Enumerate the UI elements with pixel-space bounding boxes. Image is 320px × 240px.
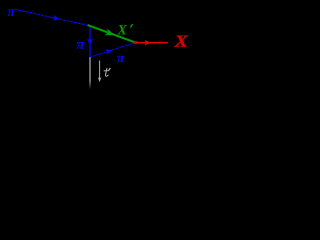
- X' axis (green): [88, 25, 135, 42]
- svg-text:X: X: [116, 23, 127, 38]
- arrowhead on X axis: [145, 40, 151, 46]
- t' axis short arrow (gray): [99, 61, 101, 80]
- vector pi space component (blue lower diagonal): [90, 43, 135, 58]
- svg-text:π: π: [76, 37, 85, 53]
- svg-text:π: π: [7, 5, 15, 20]
- prime of t': [108, 68, 111, 72]
- arrowhead on X' axis: [105, 28, 116, 38]
- wire: incoming null worldline (blue diagonal): [15, 9, 90, 26]
- arrowhead on incoming worldline: [53, 15, 60, 22]
- svg-text:π: π: [117, 51, 125, 66]
- observer worldline continuation (gray, fading): [89, 57, 90, 89]
- X axis (red): [135, 42, 168, 44]
- prime of X': [130, 24, 133, 28]
- arrowhead on vertical pi component: [87, 38, 93, 45]
- event dot (red): [134, 41, 137, 44]
- arrowhead on lower pi component: [105, 47, 113, 54]
- label t': [105, 68, 108, 76]
- arrowhead on t' arrow: [98, 77, 101, 82]
- vector pi time component (blue vertical): [89, 26, 91, 57]
- svg-text:X: X: [174, 32, 189, 51]
